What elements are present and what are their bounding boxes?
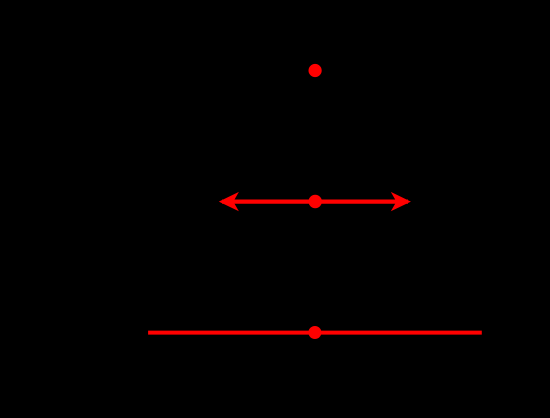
arrowhead left	[219, 192, 239, 211]
node M (middle red dot)	[309, 195, 322, 208]
node B (bottom red dot)	[308, 326, 321, 339]
point P (top red dot)	[309, 64, 322, 77]
arrowhead right	[391, 192, 411, 211]
wire (double-arrow shaft)	[222, 199, 408, 203]
wire (bottom line segment)	[148, 331, 482, 335]
